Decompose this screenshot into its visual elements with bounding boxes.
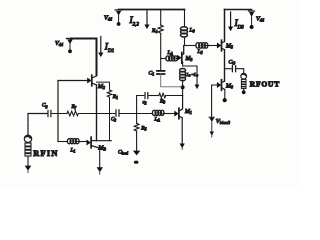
svg-text:I2,2: I2,2 <box>129 16 140 27</box>
wire: M3 drain up to L0/L5 node <box>183 46 185 54</box>
wire: right rail down to M5 drain <box>224 10 226 42</box>
wire: right Vdd rail <box>225 9 252 11</box>
svg-text:c2: c2 <box>143 101 147 106</box>
RFOUT port ground dot <box>242 89 246 95</box>
wire: Ls bottom to junction dot <box>182 80 184 96</box>
svg-text:RFOUT: RFOUT <box>250 80 280 89</box>
svg-text:CG: CG <box>229 60 236 66</box>
inductor LA (M3 gate) <box>166 56 178 61</box>
ground arrow (Cload) <box>133 151 140 156</box>
svg-text:Cload: Cload <box>118 150 128 156</box>
inductor LB (M1 gate) <box>152 110 164 115</box>
svg-text:L3=L4: L3=L4 <box>186 72 199 78</box>
svg-text:M2: M2 <box>97 84 105 90</box>
svg-text:Rf: Rf <box>71 104 77 110</box>
ground arrow (M1 source) <box>180 144 185 150</box>
svg-text:ID3: ID3 <box>234 19 245 30</box>
RFIN port resistor box <box>25 143 31 156</box>
current arrow I_D3 <box>228 12 233 31</box>
resistor R5 <box>134 123 139 131</box>
svg-text:Cg: Cg <box>42 103 48 109</box>
wire: left Vdd rail to M2 drain <box>71 39 97 76</box>
wire: feedback row left corner <box>137 96 144 114</box>
wire: feedback node vertical (M2 gate column) <box>57 81 59 142</box>
wire: M6 gate to Vbias2 line <box>212 85 217 117</box>
transistor M3 <box>177 53 184 64</box>
capacitor C2 (feedback) <box>145 93 148 99</box>
wire: R4 bottom lead down to C1 <box>160 34 162 71</box>
wire: Cg to Rf <box>52 113 67 115</box>
RFOUT port source circle <box>241 73 247 79</box>
wire: L1 row corner <box>58 141 67 143</box>
svg-text:L5: L5 <box>197 49 203 55</box>
power Vdd symbol (left) <box>67 39 74 54</box>
node: C1 branch junction dot <box>181 85 185 89</box>
svg-text:M1: M1 <box>184 109 192 115</box>
wire: M_B source down <box>99 148 101 167</box>
wire: R1 branch column down <box>109 97 111 140</box>
wire: C2 to LB coil <box>120 113 152 115</box>
wire: node row to L5 <box>185 45 197 47</box>
wire: stub from C1 column to LA coil <box>161 58 166 60</box>
wire: M2 source cascode rail down to drain bar <box>96 85 98 141</box>
ground dot below Cload <box>134 161 139 164</box>
svg-text:Vdd: Vdd <box>55 40 64 47</box>
wire: R3 to M1 drain column <box>166 95 183 97</box>
svg-text:Vdd: Vdd <box>104 15 113 22</box>
svg-text:L1: L1 <box>70 148 76 154</box>
svg-text:C1: C1 <box>149 71 155 77</box>
svg-text:M6: M6 <box>225 84 233 90</box>
svg-text:MB: MB <box>98 146 107 152</box>
svg-text:ID1: ID1 <box>104 43 114 54</box>
wire: R5 down to Cload arrow <box>136 131 138 151</box>
inductor L0 <box>181 27 188 37</box>
svg-text:LA: LA <box>167 50 174 56</box>
resistor R3 <box>159 93 166 97</box>
ground (RFIN port) <box>25 156 32 173</box>
svg-text:M5: M5 <box>225 44 233 50</box>
wire: L5 to M5 gate <box>204 45 217 47</box>
svg-text:L0: L0 <box>189 28 195 34</box>
power Vdd symbol (right) <box>249 11 255 29</box>
svg-text:M3: M3 <box>185 56 193 62</box>
wire: Cc to RFOUT port <box>237 69 244 73</box>
transistor M6 <box>217 80 225 91</box>
resistor R1 <box>107 90 111 97</box>
capacitor Cg <box>48 110 51 116</box>
inductor L5 <box>196 43 208 48</box>
transistor M5 <box>217 40 225 51</box>
svg-text:LA: LA <box>154 117 161 123</box>
wire: M3 source node to degeneration stub <box>183 62 197 84</box>
capacitor C2 (main row) <box>116 110 119 116</box>
capacitor C1 <box>157 70 165 74</box>
ground arrow (M3 source stub) <box>195 85 200 90</box>
inductor L1 <box>67 139 79 144</box>
svg-text:R1: R1 <box>112 94 118 100</box>
wire: C2 to R3 <box>149 95 159 97</box>
capacitor Cc <box>232 66 235 72</box>
wire: LB to M1 gate <box>163 113 175 115</box>
svg-text:R5: R5 <box>140 126 146 132</box>
wire: R5 branch column <box>136 114 138 124</box>
bias Vbias2 symbol <box>209 117 214 137</box>
wire: M6 source to open dot <box>223 89 227 102</box>
wire: M5 source down to M6 drain <box>224 50 226 81</box>
wire: L0 drop from rail <box>184 10 186 27</box>
label M2 <box>97 83 108 90</box>
wire: R4 top lead from rail <box>160 10 162 26</box>
svg-text:R3: R3 <box>159 99 165 105</box>
current arrow I_D2 <box>144 11 149 29</box>
svg-text:Vdd: Vdd <box>256 16 265 23</box>
wire: C1 to M3 source dot (grey L) <box>161 74 182 87</box>
svg-text:RFIN: RFIN <box>33 149 58 158</box>
power Vdd symbol (middle) <box>115 10 122 26</box>
wire: L1 to M_B gate <box>78 141 87 143</box>
RFOUT port resistor box <box>241 79 246 88</box>
resistor Rf <box>67 111 78 116</box>
wire: LA to M3 gate <box>176 58 177 60</box>
transistor M_B <box>87 137 100 148</box>
wire: M_B drain bar <box>97 140 112 142</box>
wire: Cc branch from source-follower node <box>225 68 232 70</box>
transistor M2 <box>87 75 96 86</box>
resistor R4 <box>158 25 163 33</box>
wire: L0 bottom to node at y45.5 <box>184 37 186 46</box>
wire: middle Vdd top rail <box>119 9 185 11</box>
wire: input corner up to row <box>28 114 47 126</box>
wire: R1 branch top stub <box>97 82 110 90</box>
ground (M_B source) <box>97 167 103 174</box>
wire: Rf to C2 main row <box>79 113 115 115</box>
wire: M2 gate row <box>58 80 87 82</box>
svg-text:C2: C2 <box>111 118 116 123</box>
wire: M1 source down <box>181 118 183 144</box>
svg-text:R4: R4 <box>151 28 157 34</box>
transistor M1 <box>174 108 182 119</box>
wire: M3 source column down to M1 drain <box>182 96 184 109</box>
RFIN port source circle <box>24 125 31 143</box>
inductor Ls (M3 source, vertical) <box>180 69 186 81</box>
current arrow I_D1 <box>98 37 103 58</box>
svg-text:Vbias2: Vbias2 <box>216 118 230 125</box>
